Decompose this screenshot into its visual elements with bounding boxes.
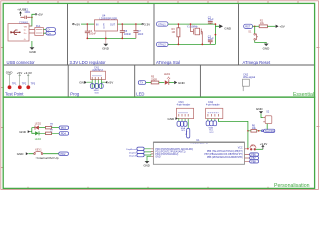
wires prog pins (87, 80, 105, 89)
net label 3.3V (142, 22, 150, 26)
svg-text:DispCS: DispCS (129, 155, 137, 157)
net label PB7 (250, 156, 259, 160)
svg-text:VCC: VCC (238, 147, 243, 149)
svg-text:GND: GND (263, 47, 271, 51)
wire stub (242, 86, 244, 91)
net label DispDC (129, 150, 144, 154)
svg-text:D-: D- (48, 28, 51, 32)
wire gnd to pad (261, 114, 263, 118)
power symbol +VUSB (17, 7, 26, 16)
svg-text:GND: GND (144, 164, 150, 168)
net labels CN4 pill cluster (206, 121, 217, 126)
LED LED1 (164, 73, 174, 85)
net label PB6 (250, 153, 259, 157)
svg-text:TP2: TP2 (22, 83, 27, 86)
EMI filter FL1 (35, 24, 46, 36)
wire CN4 pin4 to touch node (218, 119, 248, 149)
wire (28, 153, 58, 155)
svg-text:GND: GND (256, 107, 264, 111)
net label D+ (46, 31, 55, 35)
LED LED4 (green) (35, 131, 42, 141)
svg-text:XTAL2: XTAL2 (158, 43, 166, 47)
section divider lines (gray) (4, 4, 314, 97)
capacitor C4 (85, 24, 97, 38)
wire (146, 82, 152, 84)
svg-text:GND: GND (155, 156, 160, 158)
touch pad S2 (263, 110, 272, 130)
mcu U1 ATMEGA328 (153, 139, 244, 165)
svg-text:OUT: OUT (110, 23, 116, 26)
test point TP3 (+3.3V) (24, 71, 36, 89)
svg-text:10nF: 10nF (138, 33, 144, 36)
power +5V (arrow) (276, 25, 285, 29)
node junction VBUS (31, 17, 33, 19)
svg-text:GND: GND (19, 130, 27, 134)
svg-text:GND: GND (6, 71, 14, 75)
power +3.3V (jumper) (260, 142, 268, 149)
svg-text:PB7 (PBGA2/ADC/OS OB/TB7W PT): PB7 (PBGA2/ADC/OS OB/TB7W PT) (204, 153, 242, 156)
svg-text:PD2: PD2 (61, 153, 66, 156)
svg-text:SCK: SCK (95, 92, 100, 94)
Personalisation group box (green) (3, 97, 314, 188)
svg-text:D-: D- (24, 30, 27, 32)
svg-text:LED: LED (136, 91, 144, 96)
resistor R5 330R (151, 76, 164, 84)
net label +5V (35, 13, 43, 17)
mcu left pin stubs (151, 149, 154, 157)
capacitor C5 (120, 24, 132, 38)
svg-text:+5V: +5V (37, 13, 42, 17)
ground GND (led, arrow) (174, 81, 185, 85)
net label AREF (250, 160, 259, 164)
resistor R3 1M (172, 24, 180, 44)
wire to +5V label (32, 14, 35, 17)
node junctions on output (121, 23, 123, 25)
pin rows text left (155, 148, 193, 159)
wires to left labels (144, 149, 151, 155)
wire XTAL2 net (168, 43, 215, 45)
net label PD3 (59, 126, 68, 130)
wire output (118, 23, 142, 25)
svg-text:Wire-signal: Wire-signal (243, 76, 255, 79)
Essential group box (green) (3, 3, 314, 97)
connector CN2 label (243, 73, 255, 79)
svg-text:ATmega Reset: ATmega Reset (243, 60, 271, 65)
net label DispCS (129, 154, 144, 158)
capacitor C1 (21, 8, 31, 19)
LED LED2 (red) (35, 123, 42, 130)
svg-text:GND: GND (178, 81, 186, 85)
svg-text:Essential: Essential (293, 92, 314, 98)
pad box CN2 (243, 79, 250, 86)
svg-text:LED2: LED2 (35, 123, 42, 126)
net label PD2 (59, 152, 69, 156)
net labels CN3 pill cluster (177, 121, 190, 138)
regulator U4 (95, 14, 118, 32)
power GND (key) (17, 152, 29, 156)
node junctions xtal (178, 23, 180, 25)
ground GND (reset) (263, 44, 271, 51)
svg-text:G: G (103, 27, 105, 30)
svg-text:100n: 100n (24, 10, 30, 14)
power +5V (prog right) (105, 80, 113, 84)
gnd rail wire (215, 24, 219, 44)
node junction (86, 23, 88, 25)
ground GND (LDO) (102, 44, 110, 51)
jumper JP1 (250, 144, 263, 150)
svg-text:3.3V: 3.3V (144, 22, 150, 26)
svg-text:ATmega Xtal: ATmega Xtal (156, 60, 180, 65)
net label XTAL2 (157, 42, 169, 47)
node junction (247, 130, 249, 132)
node junction (reset pin) (247, 148, 249, 150)
pin rows text right (204, 147, 243, 159)
net label TX (138, 81, 145, 85)
net label D- (46, 28, 55, 32)
connector CN1 AVRISP (91, 66, 106, 79)
net label PD4 (59, 132, 68, 136)
svg-text:PB8: PB8 (251, 162, 256, 164)
svg-text:FL1: FL1 (36, 24, 41, 28)
svg-text:USB connector: USB connector (7, 60, 36, 65)
svg-text:GND: GND (17, 152, 25, 156)
svg-text:+3.3V: +3.3V (24, 71, 32, 75)
power GND (CN3) (168, 117, 179, 121)
svg-text:DispDC: DispDC (129, 152, 137, 154)
connector CN4 (206, 101, 223, 119)
svg-text:LED1: LED1 (164, 73, 171, 76)
page border tick marks (1, 1, 320, 190)
svg-text:4-pin-header: 4-pin-header (177, 104, 191, 107)
svg-text:Personalisation: Personalisation (274, 183, 310, 189)
svg-text:+3.3V: +3.3V (260, 142, 268, 146)
svg-text:LED4: LED4 (35, 138, 42, 141)
net label XTAL1 (157, 22, 169, 27)
svg-text:IN: IN (96, 23, 99, 26)
test point TP2 (+5V) (17, 71, 27, 89)
svg-text:TX: TX (140, 81, 144, 85)
svg-text:TP3: TP3 (31, 83, 36, 86)
svg-text:PD4: PD4 (61, 133, 66, 136)
svg-text:G: G (24, 39, 26, 41)
page border (outer red) (1, 1, 319, 190)
resistor R6 (248, 125, 261, 133)
svg-text:TP1: TP1 (12, 83, 17, 86)
svg-text:PD3: PD3 (61, 127, 66, 130)
ground GND (xtal, right arrow) (219, 24, 232, 30)
capacitor C3 (208, 35, 214, 44)
capacitor C2 (208, 16, 214, 24)
svg-text:100nF: 100nF (89, 33, 97, 36)
svg-text:GND: GND (168, 117, 176, 121)
wire mcu gnd drop (147, 156, 151, 161)
wire input (81, 23, 95, 25)
wire VBUS down to connector (29, 17, 32, 26)
net label TouchReset (261, 129, 274, 133)
push button KEY1 (34, 148, 43, 154)
svg-text:Test Point: Test Point (5, 91, 24, 96)
svg-text:GND: GND (29, 50, 37, 54)
wire connector GND (31, 41, 33, 47)
ground GND (mcu left) (144, 161, 150, 168)
svg-text:! Internal Pull Up: ! Internal Pull Up (36, 156, 59, 160)
USB connector J1 (8, 20, 35, 41)
svg-text:TouchRst: TouchRst (265, 130, 275, 133)
svg-text:4-pin-header: 4-pin-header (206, 104, 220, 107)
wire XTAL1 net (168, 23, 215, 25)
net label DispReset (126, 147, 144, 151)
resistor R2 10k (259, 20, 275, 28)
crystal Y1 (187, 24, 203, 44)
power GND (led pair) (19, 130, 30, 134)
svg-text:DispReset: DispReset (126, 148, 136, 151)
capacitor C7 (133, 24, 143, 38)
wire common (30, 128, 35, 134)
svg-text:PB8 (MOS2/ADG/OUA36/MOSTB): PB8 (MOS2/ADG/OUA36/MOSTB) (207, 156, 243, 159)
wire rst (253, 25, 260, 27)
svg-text:D+: D+ (48, 31, 52, 35)
wires CN4 pins (208, 119, 215, 121)
svg-text:+5V: +5V (108, 80, 113, 84)
power GND (touch) (256, 107, 264, 114)
svg-text:PB6 (TAL1/XTAL1/TOSC1) PB(XT): PB6 (TAL1/XTAL1/TOSC1) PB(XT) (207, 150, 243, 153)
svg-text:+5V: +5V (75, 22, 80, 26)
net labels MISO/MOSI/SCK pill cluster (90, 84, 103, 89)
svg-text:+5V: +5V (279, 25, 284, 29)
svg-text:3.3V LDO regulator: 3.3V LDO regulator (70, 60, 107, 65)
power GND (prog left) (79, 80, 87, 84)
mcu right pin stubs (245, 149, 250, 162)
node junctions on bus (86, 38, 88, 40)
svg-text:XTAL1: XTAL1 (158, 22, 166, 26)
net label +5V (LDO input) (73, 22, 81, 26)
test point TP1 (GND) (6, 71, 17, 90)
resistor R3 1k (39, 124, 59, 129)
svg-text:100nF: 100nF (124, 33, 132, 36)
svg-text:RST: RST (245, 25, 251, 29)
net label RST (244, 24, 253, 28)
svg-text:1M: 1M (172, 31, 175, 34)
svg-text:VCC: VCC (209, 132, 214, 134)
ground bus wire (87, 37, 136, 39)
svg-text:Prog: Prog (70, 91, 80, 96)
connector CN3 (176, 101, 193, 119)
push button SW1 (248, 26, 266, 43)
wires CN3 pins (179, 119, 188, 129)
svg-text:GND: GND (102, 46, 110, 50)
resistor R4 1k (39, 130, 59, 135)
node junction 2 (258, 130, 260, 132)
ground GND (USB) (29, 47, 37, 54)
svg-text:KEY1: KEY1 (35, 148, 42, 151)
node junction (254, 25, 256, 27)
svg-text:GND: GND (224, 26, 232, 30)
